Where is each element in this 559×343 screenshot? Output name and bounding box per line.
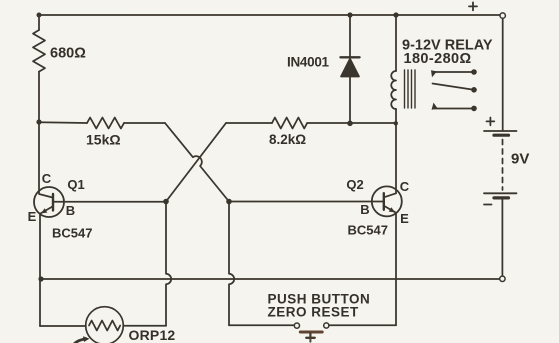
push button stem <box>309 334 311 337</box>
relay coil lead top <box>395 15 397 71</box>
node Q2 base junction <box>226 199 232 205</box>
wire Q1 base <box>54 201 167 203</box>
wire junction to 15k <box>39 121 87 124</box>
diode IN4001 triangle <box>341 59 359 77</box>
wire ORP12 to Q1 base drop <box>123 325 166 327</box>
wire 15k to corner <box>124 122 165 124</box>
svg-text:9V: 9V <box>511 151 529 168</box>
svg-text:B: B <box>66 203 75 218</box>
wire top +V rail <box>39 14 500 16</box>
node diode top junction <box>347 12 352 17</box>
transistor Q2 base bar <box>383 193 385 210</box>
wire Q2 base node down with hop over 0V rail <box>229 202 234 326</box>
wire 680 ohm to junction <box>38 72 40 122</box>
wire left rail top <box>38 15 40 30</box>
push button right terminal <box>324 323 329 328</box>
svg-text:Q2: Q2 <box>346 177 363 192</box>
relay contact top line <box>433 71 472 73</box>
transistor Q1 emitter <box>40 207 53 327</box>
wire bottom 0V rail <box>41 278 500 280</box>
transistor Q2 emitter arrow <box>389 207 396 212</box>
node coil bottom junction <box>394 121 398 125</box>
svg-text:B: B <box>360 202 369 217</box>
node diode bottom junction <box>347 121 353 127</box>
resistor 680ohm R1 <box>33 30 45 72</box>
wire diagonal Q1 base to 8.2k <box>166 123 226 202</box>
transistor Q2 emitter <box>384 206 396 325</box>
node top left junction <box>37 13 42 18</box>
relay core line 2 <box>407 70 409 108</box>
relay coil arcs <box>391 71 396 109</box>
wire Q2 base drop to push button <box>229 324 294 326</box>
terminal top right <box>500 13 505 18</box>
push button foot <box>309 339 311 342</box>
relay contact tick bottom <box>432 103 438 110</box>
transistor Q2 collector joint <box>384 193 396 197</box>
transistor Q1 collector <box>39 122 53 198</box>
node Q1 base junction <box>163 199 169 205</box>
photocell light arrow <box>74 339 86 343</box>
relay contact tick top <box>431 70 437 77</box>
svg-text:BC547: BC547 <box>348 223 388 238</box>
push button left terminal <box>294 323 299 328</box>
wire diagonal 15k to Q2 base with hop <box>165 123 229 202</box>
svg-text:BC547: BC547 <box>52 226 92 241</box>
wire Q1 base node down with hop over 0V rail <box>166 202 171 326</box>
battery plate 3 long <box>484 192 517 194</box>
photocell arrow head <box>83 336 90 342</box>
svg-text:E: E <box>28 209 37 224</box>
transistor Q2 circle <box>372 186 402 216</box>
transistor Q1 emitter arrow <box>41 208 48 213</box>
plus sign top terminal <box>469 2 477 10</box>
push button actuator bar <box>300 331 322 334</box>
relay contact bottom line <box>434 108 472 110</box>
relay core line 3 <box>411 70 413 108</box>
relay contact dot bottom <box>471 106 477 112</box>
svg-text:680Ω: 680Ω <box>50 46 86 62</box>
svg-text:Q1: Q1 <box>67 177 84 192</box>
battery dashed middle <box>502 140 504 191</box>
svg-text:IN4001: IN4001 <box>287 55 330 70</box>
photocell ORP12 zigzag <box>89 321 120 331</box>
wire battery bottom to lower terminal <box>501 200 503 277</box>
push button handle <box>306 337 314 339</box>
svg-text:C: C <box>400 179 410 194</box>
relay coil lead bottom to Q2 collector <box>395 109 397 193</box>
diode IN4001 leads <box>349 15 351 123</box>
transistor Q1 circle <box>34 187 64 217</box>
transistor Q1 base bar <box>52 194 54 211</box>
relay contact dot middle <box>471 87 477 93</box>
resistor 15k R2 <box>87 118 124 129</box>
battery plate 1 long <box>484 130 517 132</box>
svg-text:180-280Ω: 180-280Ω <box>404 51 472 67</box>
svg-text:15kΩ: 15kΩ <box>86 132 121 148</box>
relay core line 1 <box>404 70 406 108</box>
photocell ORP12 circle <box>86 307 124 343</box>
relay contact dot top <box>471 69 477 75</box>
wire Q2 base <box>229 201 384 203</box>
plus sign battery <box>487 118 495 126</box>
wire corner to 8.2k <box>226 122 272 124</box>
battery plate 2 short <box>494 134 509 137</box>
svg-text:E: E <box>400 211 409 226</box>
svg-text:ZERO RESET: ZERO RESET <box>268 305 360 320</box>
svg-text:ORP12: ORP12 <box>129 327 176 343</box>
minus sign battery <box>484 204 492 206</box>
wire push button to Q2 emitter <box>329 324 396 326</box>
relay core line 4 <box>414 70 416 108</box>
wire right side from + terminal down to battery <box>502 18 504 131</box>
svg-text:C: C <box>42 171 52 186</box>
diode IN4001 cathode bar <box>341 56 360 58</box>
node 0V left junction <box>38 276 43 281</box>
node coil top junction <box>393 12 398 17</box>
svg-text:8.2kΩ: 8.2kΩ <box>269 132 306 147</box>
wire 8.2k to Q2 collector node <box>307 122 396 124</box>
relay contact arm <box>433 84 473 90</box>
resistor 8.2k R3 <box>272 118 307 129</box>
terminal bottom right <box>500 276 505 281</box>
battery plate 4 short <box>494 196 509 199</box>
node 680/15k junction <box>36 119 41 124</box>
wire 0V to ORP12 <box>40 325 86 327</box>
